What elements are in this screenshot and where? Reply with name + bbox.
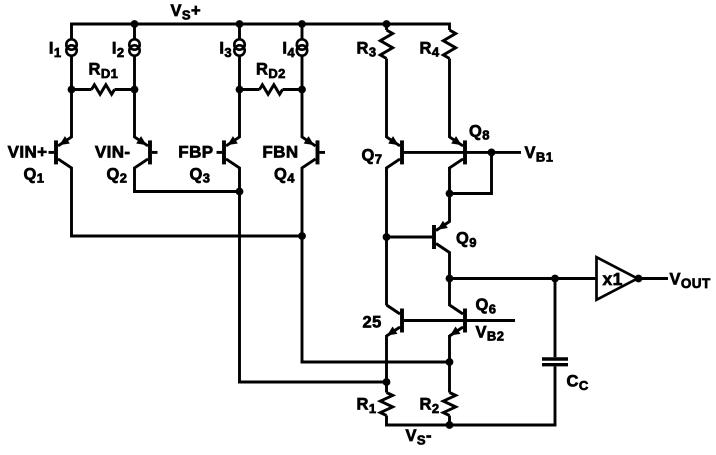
- svg-text:x1: x1: [603, 269, 623, 289]
- wire lower route to R1 node: [238, 381, 386, 384]
- junction VB1 loop: [488, 149, 496, 157]
- wire Q8 collector down: [448, 167, 451, 194]
- svg-text:R3: R3: [357, 39, 377, 59]
- resistor R1: [380, 393, 392, 416]
- transistor Q6: [450, 305, 466, 336]
- transistor Q8: [450, 136, 466, 168]
- junction rail I4: [298, 20, 306, 28]
- wire emitter feed Q2: [133, 90, 136, 138]
- svg-text:Q7: Q7: [362, 146, 383, 166]
- power rail VS-: [385, 424, 556, 427]
- transistor Q3: [224, 136, 240, 168]
- wire I1 to emitter node: [70, 56, 73, 90]
- wire 25 emitter down to R1: [385, 335, 388, 393]
- wire Q2 collector down: [133, 167, 136, 192]
- junction buffer output: [635, 275, 643, 283]
- junction rail R3: [383, 20, 391, 28]
- wire emitter feed Q1: [70, 90, 73, 138]
- op-amp buffer x1: [597, 257, 638, 300]
- svg-text:CC: CC: [567, 373, 589, 393]
- wire base line 25/Q6 VB2: [404, 319, 515, 322]
- wire I2 to emitter node: [133, 56, 136, 90]
- transistor Q4: [302, 136, 318, 168]
- svg-text:Q9: Q9: [456, 230, 477, 250]
- svg-text:R4: R4: [420, 39, 440, 59]
- wire CC tap down: [554, 279, 557, 358]
- svg-text:RD2: RD2: [256, 61, 286, 81]
- wire Q9 collector down: [448, 252, 451, 279]
- capacitor CC: [542, 357, 568, 360]
- wire VB1 loop across: [450, 192, 493, 195]
- svg-text:VS-: VS-: [406, 427, 432, 447]
- svg-text:25: 25: [363, 314, 382, 332]
- svg-text:FBP: FBP: [178, 142, 213, 161]
- svg-text:RD1: RD1: [89, 61, 119, 81]
- current source I1: [66, 39, 76, 55]
- svg-text:Q6: Q6: [476, 296, 497, 316]
- current source I4: [297, 39, 307, 55]
- wire I4 to emitter node: [301, 56, 304, 90]
- junction at R1 top node: [383, 378, 391, 386]
- wire CC bottom to VS-: [554, 366, 557, 425]
- svg-text:VS+: VS+: [171, 2, 202, 22]
- svg-text:VB2: VB2: [476, 323, 505, 343]
- wire I3 to emitter node: [238, 56, 241, 90]
- svg-text:R1: R1: [357, 396, 377, 416]
- current source I3: [234, 39, 244, 55]
- junction RD2 left: [236, 86, 244, 94]
- transistor Q25: [387, 305, 403, 336]
- junction Q8 collector node: [446, 190, 454, 198]
- svg-text:VIN+: VIN+: [8, 142, 48, 161]
- resistor RD2: [240, 88, 260, 91]
- power rail VS+: [70, 23, 450, 26]
- junction RD2 right: [298, 86, 306, 94]
- wire I3 feed from VS+ rail: [238, 24, 241, 39]
- wire Q1 base stub: [49, 151, 55, 154]
- current source I2: [129, 39, 139, 55]
- svg-text:Q1: Q1: [24, 165, 45, 185]
- junction R2 bottom on VS-: [446, 421, 454, 429]
- resistor R3: [385, 24, 388, 30]
- junction Q1/Q4 collectors: [298, 232, 306, 240]
- wire Q4 base stub: [320, 151, 326, 154]
- svg-text:Q3: Q3: [190, 165, 211, 185]
- wire Q7 collector down: [385, 167, 388, 305]
- wire I2 feed from VS+ rail: [133, 24, 136, 39]
- wire Q2 base stub: [152, 151, 158, 154]
- resistor RD1: [72, 88, 92, 91]
- transistor Q1: [56, 136, 72, 168]
- wire Q1 collector to Q4 collector: [70, 235, 302, 238]
- wire upper route to R2 node: [301, 361, 450, 364]
- svg-text:VOUT: VOUT: [670, 271, 711, 291]
- svg-text:Q8: Q8: [469, 122, 490, 142]
- transistor Q2: [135, 136, 151, 168]
- wire Q9 base lead: [387, 236, 433, 239]
- wire Q2 collector to Q3 collector: [133, 190, 239, 193]
- wire base line Q7/Q8 to VB1: [404, 151, 521, 154]
- wire Q6 emitter down to R2: [448, 335, 451, 393]
- wire output node to buffer: [450, 277, 597, 280]
- junction Q9 base: [383, 233, 391, 241]
- svg-text:VIN-: VIN-: [95, 142, 131, 161]
- svg-text:R2: R2: [420, 396, 440, 416]
- junction rail I3: [236, 20, 244, 28]
- junction at R2 top node: [446, 358, 454, 366]
- transistor Q9: [434, 221, 450, 253]
- transistor Q7: [387, 136, 403, 168]
- wire VB1 loop down: [490, 152, 493, 193]
- wire Q3 collector down: [238, 167, 241, 382]
- svg-text:FBN: FBN: [262, 142, 298, 161]
- wire emitter feed Q3: [238, 90, 241, 138]
- wire Q9 emitter feed: [448, 194, 451, 223]
- svg-text:Q4: Q4: [274, 165, 295, 185]
- junction rail I2: [131, 20, 139, 28]
- wire Q6 collector up: [448, 279, 451, 307]
- wire Q3 base stub: [217, 151, 223, 154]
- wire I4 feed from VS+ rail: [301, 24, 304, 39]
- resistor R2: [443, 393, 455, 416]
- wire I1 feed from VS+ rail: [70, 24, 73, 39]
- junction output node: [446, 275, 454, 283]
- wire emitter feed Q4: [301, 90, 304, 138]
- junction CC tap: [551, 275, 559, 283]
- resistor R4: [448, 23, 451, 31]
- svg-text:I3: I3: [219, 40, 232, 60]
- wire Q1 collector down: [70, 167, 73, 236]
- svg-text:I2: I2: [112, 40, 125, 60]
- svg-text:I4: I4: [282, 40, 295, 60]
- svg-text:Q2: Q2: [107, 165, 128, 185]
- wire buffer output: [639, 277, 669, 280]
- junction RD1 right: [131, 86, 139, 94]
- svg-text:I1: I1: [49, 40, 62, 60]
- junction RD1 left: [68, 86, 76, 94]
- svg-text:VB1: VB1: [525, 144, 554, 164]
- wire Q4 collector down: [301, 167, 304, 362]
- junction Q2/Q3 collectors: [236, 188, 244, 196]
